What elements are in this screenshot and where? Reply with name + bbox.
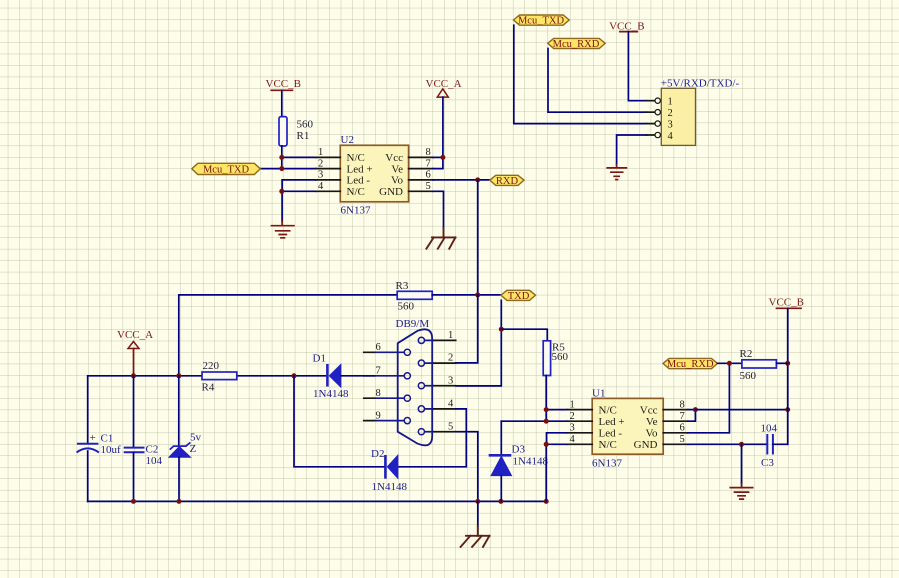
svg-text:1N4148: 1N4148	[372, 481, 408, 493]
svg-text:Led -: Led -	[347, 175, 371, 187]
svg-text:560: 560	[740, 370, 757, 382]
svg-text:1N4148: 1N4148	[313, 388, 349, 400]
svg-text:7: 7	[376, 366, 381, 377]
node junction Mcu_RXD/U1 pin6	[727, 361, 732, 366]
wire VCC_A to U2 pins 8,7	[433, 97, 443, 169]
svg-text:VCC_B: VCC_B	[266, 78, 301, 90]
svg-text:1: 1	[318, 147, 323, 158]
svg-text:2: 2	[668, 108, 673, 119]
wire U1 pin3 to pin4 and rail	[547, 433, 568, 445]
wire U1 pin6 to Mcu_RXD vertical	[688, 363, 729, 433]
svg-text:VCC_A: VCC_A	[117, 329, 153, 341]
U1 right pins 8-5	[663, 399, 688, 445]
wire pin8 row to VCC_B vertical	[695, 409, 787, 411]
svg-text:N/C: N/C	[599, 439, 617, 451]
U2 right pins 8-5	[409, 147, 434, 192]
svg-text:+: +	[90, 432, 96, 444]
node junction DB9 gnd/rail	[475, 499, 480, 504]
node junction U1 pin1	[544, 407, 549, 412]
wire R3 to TXD port	[432, 294, 501, 296]
svg-text:5: 5	[426, 181, 431, 192]
svg-text:220: 220	[203, 360, 220, 372]
node junction R1/pin1	[279, 155, 284, 160]
node junction pin8/VCC_A	[440, 155, 445, 160]
node junction C2/rail	[131, 499, 136, 504]
wire conn pin4 to ground	[617, 135, 647, 165]
svg-text:GND: GND	[379, 186, 403, 198]
diode D1 1N4148	[313, 353, 349, 401]
svg-text:560: 560	[552, 351, 569, 363]
node junction VCC_B/pin8 row	[785, 407, 790, 412]
svg-text:GND: GND	[634, 439, 658, 451]
wire D1 node down to D2	[294, 376, 385, 467]
wire Mcu_RXD to R2	[718, 362, 742, 364]
svg-text:Mcu_TXD: Mcu_TXD	[203, 165, 249, 176]
svg-text:2: 2	[448, 353, 453, 364]
svg-text:8: 8	[680, 399, 685, 410]
DB9 left pins 6-9	[364, 342, 411, 424]
wire bottom rail	[88, 500, 547, 502]
wire U1 pin5/GND row to C3	[688, 443, 767, 445]
svg-text:DB9/M: DB9/M	[396, 318, 430, 330]
svg-text:7: 7	[680, 411, 685, 422]
svg-text:U2: U2	[341, 134, 354, 146]
wire R3 row left	[179, 295, 397, 376]
svg-text:9: 9	[376, 410, 381, 421]
wire U1 pins 8,7 tie	[688, 410, 695, 422]
svg-text:4: 4	[318, 181, 324, 192]
svg-text:Vo: Vo	[645, 427, 658, 439]
svg-text:104: 104	[761, 423, 778, 435]
power VCC_B (above R1)	[266, 78, 301, 90]
svg-text:Mcu_TXD: Mcu_TXD	[518, 16, 564, 27]
wire U2 pin5 to chassis ground	[433, 191, 443, 228]
port TXD	[501, 290, 536, 302]
svg-text:560: 560	[398, 301, 415, 313]
svg-text:104: 104	[146, 455, 163, 467]
diode D2 1N4148	[371, 448, 407, 493]
svg-text:6N137: 6N137	[341, 205, 371, 217]
node junction U1 pin4/rail	[544, 499, 549, 504]
port Mcu_TXD (top)	[514, 15, 570, 27]
svg-text:3: 3	[570, 423, 575, 434]
capacitor C1 10uf (electrolytic)	[77, 376, 122, 502]
wire U2 pin6 to RXD port	[433, 179, 490, 181]
wire VCC_B vertical	[787, 308, 789, 444]
node junction zener col/row	[176, 373, 181, 378]
connector DB9/M	[396, 318, 433, 445]
power VCC_B (top right)	[609, 21, 644, 33]
wire DB9 pin5 down to rail	[456, 432, 478, 502]
DB9 right pins 1-5	[418, 330, 455, 435]
power VCC_A (above U2 right)	[426, 78, 462, 97]
svg-text:5v: 5v	[190, 432, 202, 444]
svg-text:Ve: Ve	[391, 163, 403, 175]
svg-text:6: 6	[426, 170, 431, 181]
capacitor C3 104	[761, 423, 778, 470]
wire TXD branch to R5	[501, 329, 547, 341]
connector P1 +5V/RXD/TXD/-	[661, 78, 740, 146]
wire RXD net vertical down to R3 row	[477, 180, 479, 295]
svg-text:4: 4	[570, 434, 576, 445]
svg-text:5: 5	[680, 434, 685, 445]
wire D1 to DB9 pin7	[341, 375, 374, 377]
svg-text:N/C: N/C	[347, 186, 365, 198]
svg-text:C1: C1	[101, 433, 114, 445]
wire R1 to U2 pins 1,2	[281, 146, 283, 169]
wire Mcu_RXD to conn pin2	[548, 49, 647, 113]
U1 left pins 1-4	[568, 399, 593, 445]
node junction VCC_A/row	[131, 373, 136, 378]
svg-text:3: 3	[318, 170, 323, 181]
resistor R3 560	[396, 280, 433, 313]
wire R4 row	[88, 375, 202, 377]
svg-text:TXD: TXD	[508, 291, 530, 302]
diode D3 1N4148	[489, 421, 549, 501]
op-coupler U1 6N137	[592, 388, 663, 470]
node junction VCC_B/R2	[785, 361, 790, 366]
svg-text:8: 8	[376, 388, 381, 399]
svg-text:4: 4	[448, 399, 454, 410]
svg-text:VCC_A: VCC_A	[426, 78, 462, 90]
node junction TXD/R5 branch	[499, 327, 504, 332]
resistor R5 560	[543, 341, 568, 376]
svg-text:Mcu_RXD: Mcu_RXD	[667, 359, 714, 370]
svg-text:R2: R2	[740, 348, 753, 360]
wire gnd branch down	[741, 444, 743, 483]
svg-text:RXD: RXD	[496, 176, 519, 187]
ground (chassis, below DB9)	[461, 501, 490, 547]
svg-text:7: 7	[426, 158, 431, 169]
svg-text:6N137: 6N137	[592, 458, 622, 470]
port Mcu_TXD	[192, 163, 260, 175]
node junction D3/rail	[498, 499, 503, 504]
wire R2 to VCC_B	[776, 362, 787, 364]
svg-text:10uf: 10uf	[101, 444, 122, 456]
ground (power ground, below C3 row)	[730, 484, 752, 500]
svg-text:8: 8	[426, 147, 431, 158]
ground (power ground, top right)	[607, 165, 626, 180]
U2 left pins 1-4	[316, 147, 341, 192]
wire D3 top to U1 pin2	[501, 420, 546, 422]
wire U2 pin3 to pin4 and ground	[282, 180, 316, 221]
svg-text:5: 5	[448, 421, 453, 432]
svg-text:4: 4	[668, 131, 674, 142]
node junction pin4	[279, 189, 284, 194]
svg-text:Ve: Ve	[646, 416, 658, 428]
power VCC_B (right)	[769, 297, 804, 309]
svg-text:Vo: Vo	[391, 175, 404, 187]
resistor R2 560	[740, 348, 777, 382]
svg-text:VCC_B: VCC_B	[609, 21, 644, 33]
svg-text:D3: D3	[512, 444, 526, 456]
svg-text:6: 6	[680, 423, 685, 434]
wire VCC_B to R1	[281, 90, 283, 116]
svg-text:1: 1	[668, 97, 673, 108]
svg-text:2: 2	[570, 411, 575, 422]
node junction U1 pin4	[544, 442, 549, 447]
node junction R3/TXD/RXD net	[475, 292, 480, 297]
resistor R1 560	[279, 117, 314, 146]
svg-text:Led +: Led +	[599, 416, 625, 428]
wire Mcu_TXD to conn pin3	[514, 25, 647, 123]
resistor R4 220	[202, 360, 237, 394]
svg-text:D2: D2	[371, 448, 384, 460]
svg-text:N/C: N/C	[347, 152, 365, 164]
svg-text:1: 1	[448, 330, 453, 341]
svg-text:N/C: N/C	[599, 404, 617, 416]
ground (power ground, below U2 left)	[272, 221, 294, 238]
wire R5 to U1 pins 1,2	[545, 376, 547, 422]
node junction gnd branch	[739, 442, 744, 447]
port RXD	[490, 175, 524, 187]
wire C3 to VCC_B vertical	[773, 443, 788, 445]
svg-text:560: 560	[297, 119, 314, 131]
svg-text:R4: R4	[202, 382, 215, 394]
svg-text:Led -: Led -	[599, 427, 623, 439]
svg-text:6: 6	[376, 342, 381, 353]
port Mcu_RXD	[663, 358, 718, 370]
svg-text:C3: C3	[761, 457, 774, 469]
connector pins 1-4	[647, 98, 661, 138]
wire VCC_B to conn pin1	[628, 32, 646, 101]
node junction U1 pin8	[693, 407, 698, 412]
port Mcu_RXD (top)	[548, 38, 606, 50]
svg-text:Mcu_RXD: Mcu_RXD	[553, 39, 600, 50]
power VCC_A (left)	[117, 329, 153, 376]
ground (chassis, below U2 pin5)	[426, 228, 455, 249]
svg-text:2: 2	[318, 158, 323, 169]
node junction pin2/Mcu_TXD	[279, 166, 284, 171]
capacitor C2 104	[124, 376, 163, 502]
svg-text:Z: Z	[190, 443, 197, 455]
zener diode 5v Z	[169, 376, 202, 502]
svg-text:1: 1	[570, 399, 575, 410]
svg-text:3: 3	[668, 120, 673, 131]
op-coupler U2 6N137	[340, 134, 408, 217]
node junction D1/D2 branch	[292, 373, 297, 378]
node junction U1 pin2	[544, 419, 549, 424]
svg-text:C2: C2	[146, 444, 159, 456]
wire DB9 pin4 to D2 row	[398, 409, 466, 467]
svg-text:1N4148: 1N4148	[513, 456, 549, 468]
wire TXD down to DB9 pin3	[456, 300, 502, 386]
svg-text:Led +: Led +	[347, 163, 373, 175]
node junction zener/rail	[177, 499, 182, 504]
svg-text:D1: D1	[313, 353, 326, 365]
svg-text:R1: R1	[297, 130, 310, 142]
svg-text:Vcc: Vcc	[640, 404, 658, 416]
svg-text:R3: R3	[396, 280, 409, 292]
node junction RXD	[475, 177, 480, 182]
wire RXD net down to DB9 pin2	[456, 295, 478, 363]
svg-text:VCC_B: VCC_B	[769, 297, 804, 309]
svg-text:3: 3	[448, 375, 453, 386]
svg-text:Vcc: Vcc	[385, 152, 403, 164]
